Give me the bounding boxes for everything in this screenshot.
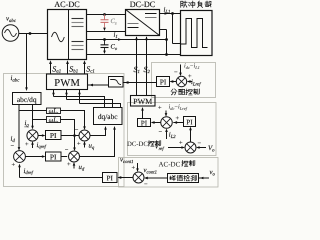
svg-text:abc/dq: abc/dq: [17, 95, 37, 104]
svg-text:+: +: [176, 115, 180, 122]
svg-text:+: +: [25, 141, 29, 148]
svg-text:DC-DC: DC-DC: [130, 0, 156, 9]
svg-text:PWM: PWM: [54, 78, 80, 89]
svg-text:−: −: [11, 143, 15, 150]
svg-text:−: −: [24, 124, 28, 131]
svg-text:+: +: [158, 105, 162, 112]
svg-text:PI: PI: [141, 119, 148, 127]
svg-text:PWM: PWM: [133, 97, 152, 106]
svg-text:AC-DC: AC-DC: [159, 161, 181, 169]
svg-text:−: −: [144, 181, 148, 188]
svg-text:+: +: [12, 162, 16, 169]
svg-text:dq/abc: dq/abc: [98, 112, 118, 121]
svg-text:+: +: [132, 165, 136, 172]
svg-text:PI: PI: [106, 175, 113, 183]
svg-text:−: −: [65, 147, 69, 154]
svg-text:ωL.: ωL.: [49, 108, 59, 115]
svg-text:−: −: [159, 129, 163, 136]
svg-text:+: +: [77, 141, 81, 148]
svg-text:DC-DC: DC-DC: [127, 141, 148, 148]
svg-text:PI: PI: [50, 131, 57, 140]
svg-text:PI: PI: [50, 153, 57, 162]
svg-text:−: −: [198, 140, 202, 147]
svg-text:ωL.: ωL.: [49, 117, 59, 124]
svg-text:+: +: [179, 140, 183, 147]
svg-text:PI: PI: [160, 78, 167, 87]
svg-text:−: −: [174, 69, 178, 76]
svg-text:PI: PI: [186, 119, 193, 127]
svg-text:−: −: [75, 127, 79, 134]
svg-text:AC-DC: AC-DC: [54, 0, 80, 9]
svg-text:+: +: [67, 161, 71, 168]
